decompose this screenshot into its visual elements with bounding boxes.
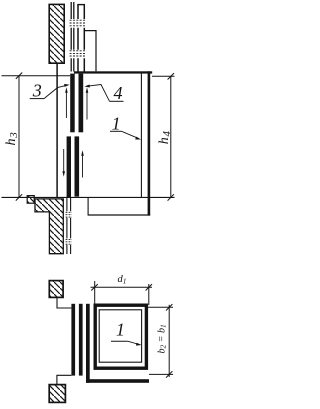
- label 3 leader arrowhead: [64, 84, 70, 87]
- dimension b extension bottom: [149, 373, 173, 375]
- panel square inner: [99, 310, 141, 362]
- dimension d1 extension left: [94, 281, 96, 304]
- batten hatched section: [27, 196, 34, 204]
- label 1 plan leader: [128, 341, 140, 344]
- panel inner stile line: [140, 74, 142, 198]
- label 1 leader: [122, 131, 139, 138]
- leaf bar 1 (plan): [71, 304, 75, 376]
- direction arrow up (right of upper leaves): [86, 87, 89, 119]
- b tick top: [166, 304, 172, 310]
- leaf bar 2 (plan): [79, 304, 83, 376]
- top guide box: [84, 31, 96, 72]
- lintel hatched section: [49, 4, 64, 63]
- label 4 underline: [110, 100, 124, 102]
- pocket line right (broken): [70, 198, 72, 254]
- jamb hatched square bottom: [49, 385, 65, 403]
- direction arrow down (left of lower leaves): [62, 149, 65, 177]
- d1 tick left: [91, 284, 97, 290]
- bottom guide box bottom edge: [88, 214, 150, 216]
- bottom guide box: [88, 198, 150, 215]
- label 4 leader arrowhead: [84, 85, 90, 88]
- leaf bottom bar (plan): [86, 379, 149, 383]
- leaf outline line a (top, broken): [70, 2, 72, 72]
- dimension b line: [168, 305, 170, 377]
- lower leaf right: [75, 136, 80, 196]
- label 1 underline: [110, 130, 122, 132]
- svg-text:h3: h3: [4, 131, 20, 145]
- lower leaf left: [67, 136, 71, 198]
- h3 tick bottom: [16, 194, 22, 200]
- svg-text:d1: d1: [118, 274, 127, 285]
- floor line: [2, 196, 175, 198]
- track channel left leg: [77, 4, 79, 71]
- panel right thick edge: [148, 71, 151, 215]
- direction arrow up (left of upper leaves): [65, 87, 68, 118]
- svg-text:h4: h4: [157, 130, 173, 144]
- svg-text:4: 4: [114, 83, 123, 103]
- upper leaf right: [79, 74, 84, 133]
- dimension d1 extension right: [148, 284, 150, 305]
- svg-text:1: 1: [116, 319, 125, 339]
- track channel right leg: [83, 4, 85, 71]
- wall line below lintel: [56, 64, 58, 197]
- leaf bar 3 (plan): [86, 304, 90, 383]
- direction arrow up (right of lower leaves): [81, 150, 84, 177]
- label 3 underline: [30, 98, 44, 100]
- label 4 leader: [87, 85, 110, 102]
- h4 tick bottom: [168, 194, 174, 200]
- b tick bottom: [166, 371, 172, 377]
- h4 tick top: [168, 73, 174, 79]
- connector top square: [57, 298, 71, 308]
- d1 tick right: [146, 284, 152, 290]
- track channel top bar: [77, 4, 85, 6]
- leaf outline line b (top, broken): [73, 2, 75, 72]
- h3 tick top: [16, 73, 22, 79]
- label 1 plan leader arrowhead: [136, 343, 142, 346]
- extension line top left: [2, 75, 71, 77]
- svg-text:1: 1: [112, 113, 121, 133]
- break marks group 2: [70, 51, 86, 56]
- label 3 leader: [44, 85, 67, 98]
- label 1 leader arrowhead: [135, 137, 141, 140]
- dimension h3 line: [18, 76, 20, 198]
- break marks group 1: [70, 20, 86, 26]
- jamb hatched square top: [49, 281, 63, 298]
- dimension d1 line: [91, 286, 153, 288]
- sill hatched section: [35, 199, 63, 254]
- pocket break marks group 1: [66, 212, 72, 217]
- svg-text:3: 3: [32, 80, 42, 100]
- label 1 plan underline: [111, 340, 128, 342]
- pocket line left (broken): [66, 198, 68, 254]
- upper leaf left: [70, 74, 75, 133]
- dimension h4 line: [170, 76, 172, 197]
- extension line top right: [152, 75, 175, 77]
- svg-text:b2 = b1: b2 = b1: [156, 324, 167, 353]
- dimension b extension top: [148, 306, 173, 308]
- connector bottom square: [57, 375, 72, 384]
- panel top thick edge: [74, 71, 152, 73]
- pocket break marks group 2: [66, 239, 72, 244]
- panel square outer: [95, 305, 146, 368]
